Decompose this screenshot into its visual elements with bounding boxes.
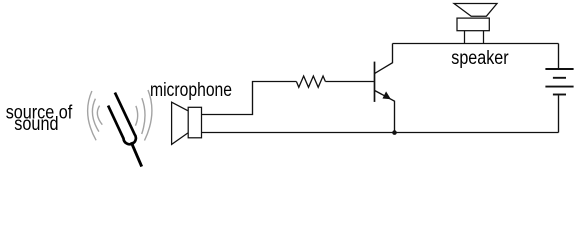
- resistor R1: [296, 76, 325, 87]
- microphone MIC1 body: [188, 107, 201, 138]
- transistor Q1 emitter: [375, 91, 395, 133]
- svg-text:sound: sound: [14, 113, 58, 135]
- battery B1 plates: [545, 69, 573, 95]
- wire: bottom rail mic to battery: [202, 132, 559, 134]
- svg-text:speaker: speaker: [451, 47, 509, 69]
- svg-text:microphone: microphone: [150, 79, 232, 101]
- junction dot emitter/bottom rail: [392, 130, 397, 135]
- tuning fork: [108, 93, 142, 167]
- wire: resistor to transistor base: [325, 81, 374, 83]
- battery B1 top lead: [558, 44, 560, 69]
- transistor Q1 base bar: [374, 62, 376, 102]
- speaker SPK1 legs: [465, 31, 484, 44]
- sound waves left: [88, 91, 103, 140]
- speaker SPK1 horn: [454, 4, 497, 44]
- battery B1 bottom lead: [558, 95, 560, 132]
- sound waves right: [135, 90, 152, 141]
- microphone MIC1 cone: [172, 102, 202, 144]
- speaker SPK1 body: [457, 18, 489, 31]
- label: source of sound: [6, 101, 73, 135]
- wire: top rail collector to battery: [393, 43, 559, 45]
- wire: mic top to base corner: [202, 82, 297, 115]
- transistor Q1 collector: [375, 44, 393, 74]
- transistor Q1 emitter arrow: [383, 92, 390, 99]
